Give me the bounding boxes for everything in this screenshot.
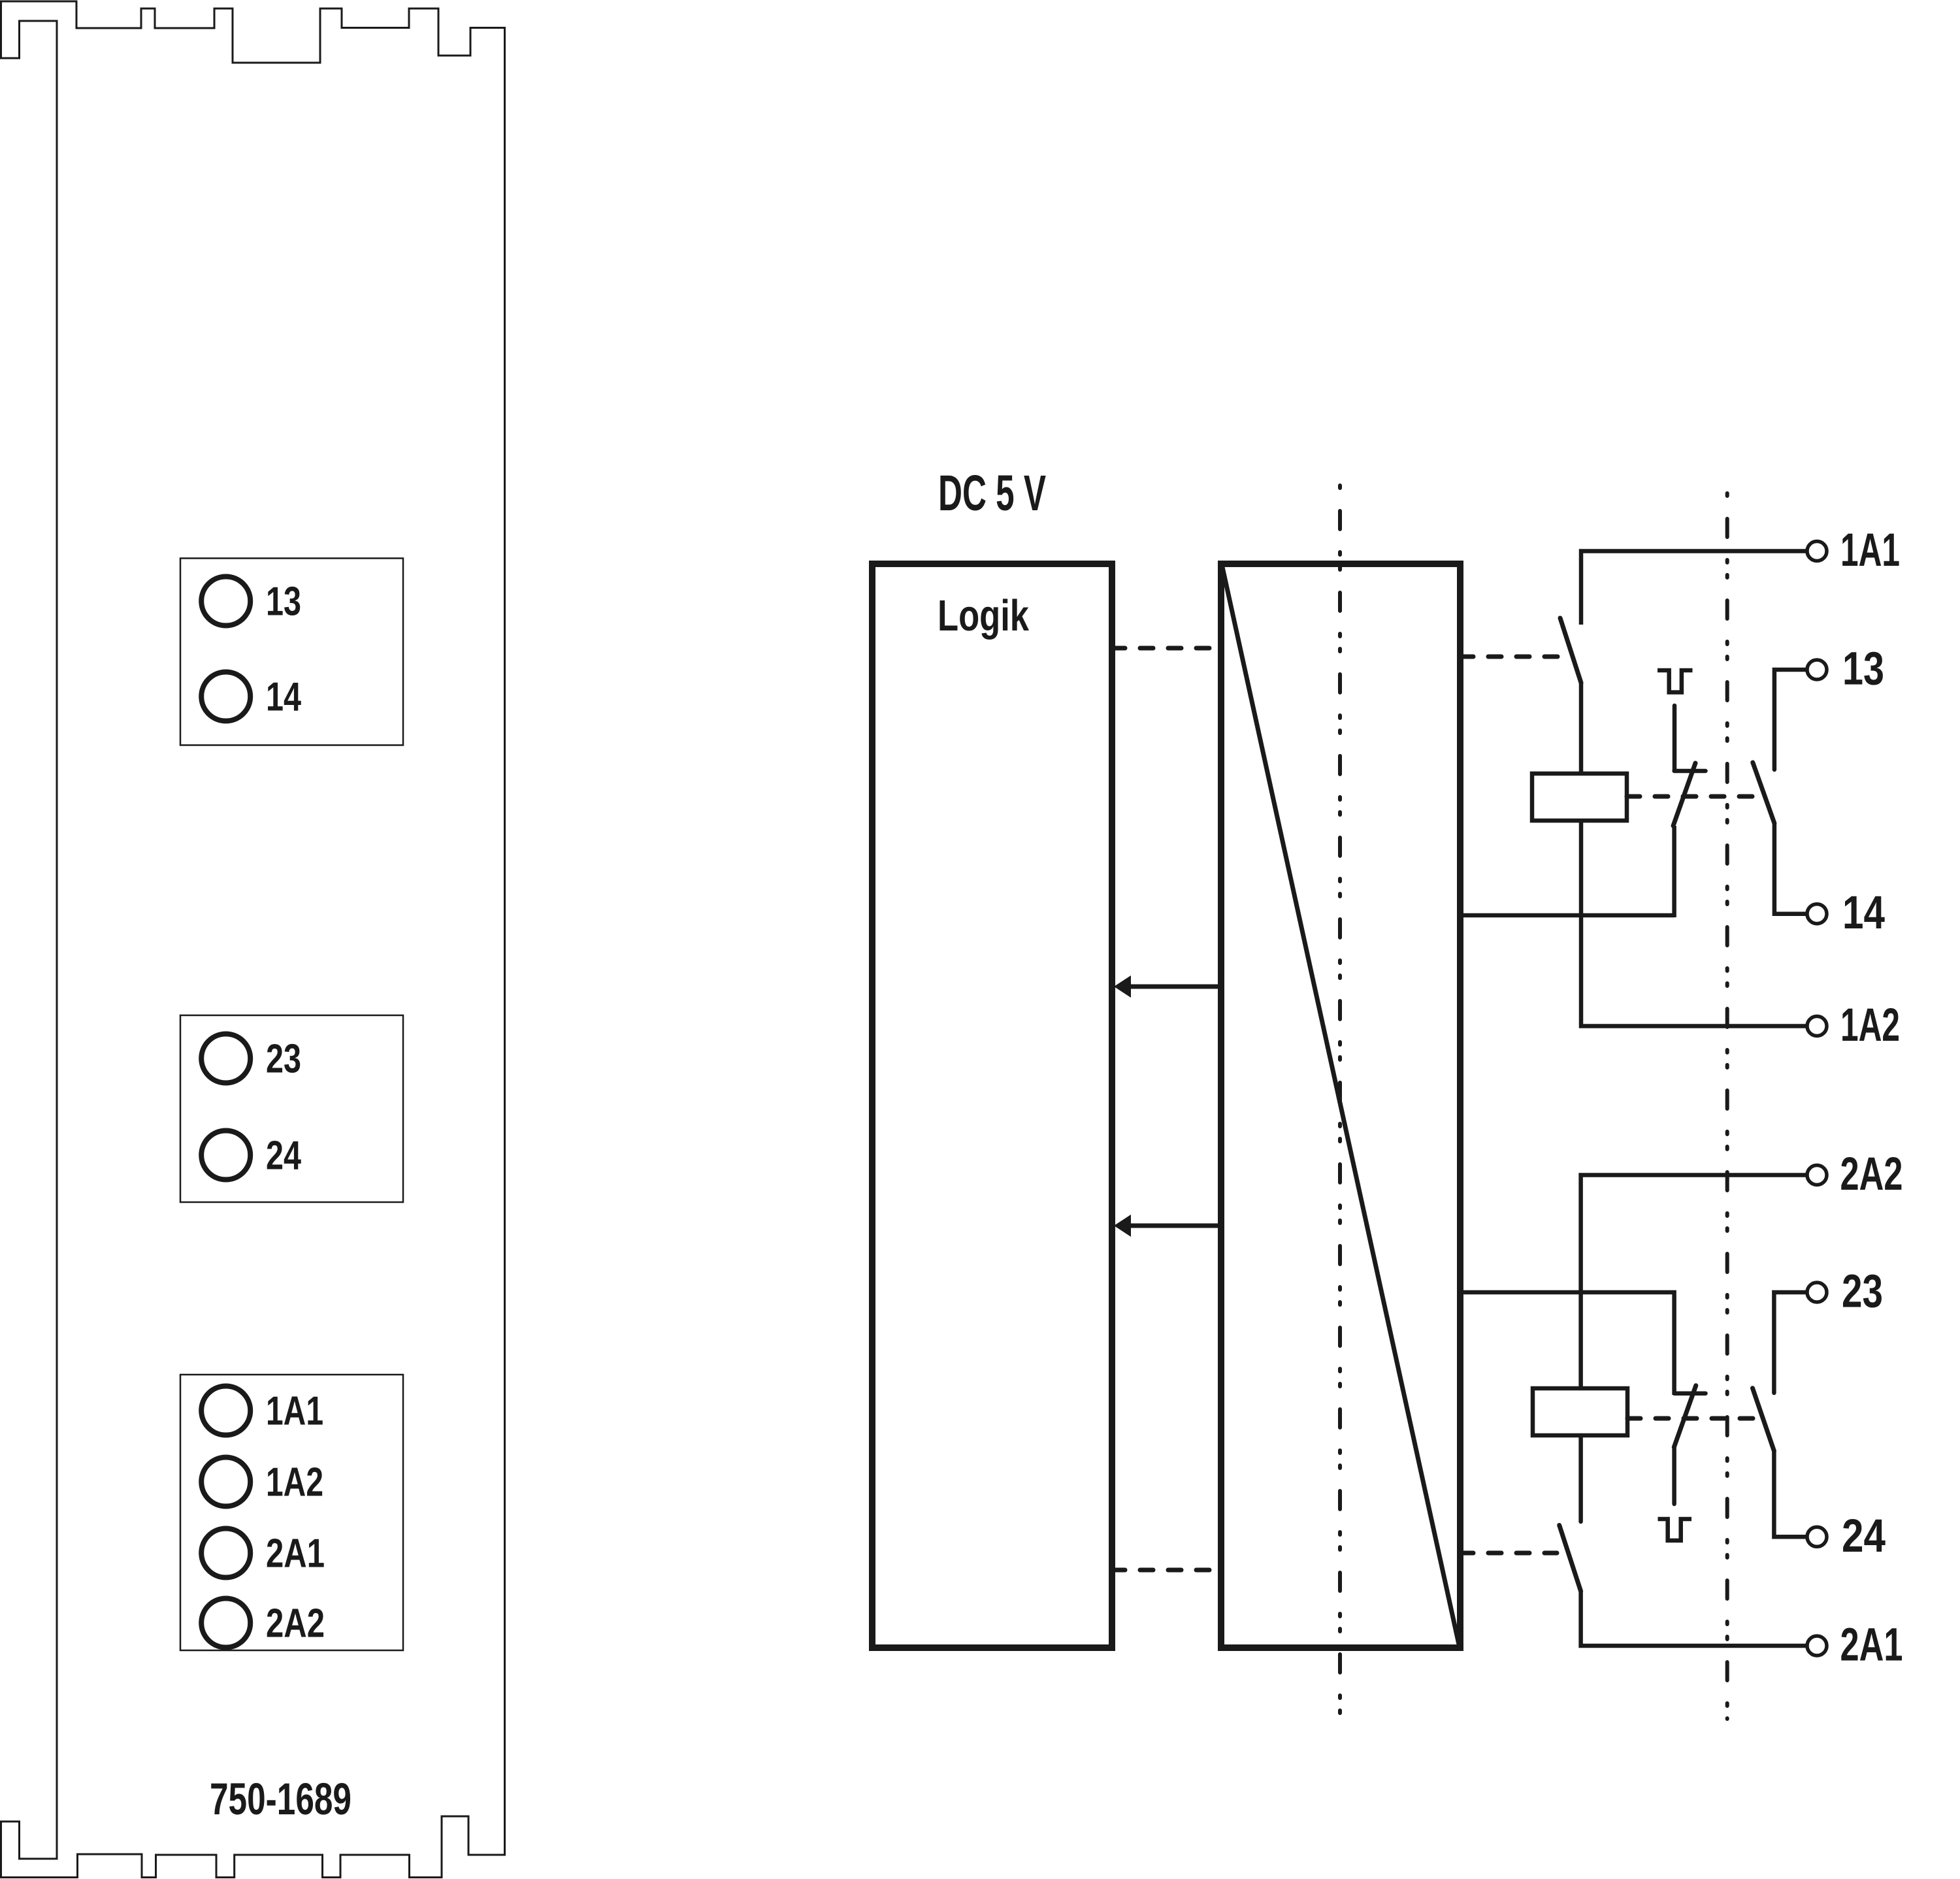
terminal circle 14 (schematic) [1807, 904, 1827, 924]
wire NC2 stub [1672, 1447, 1676, 1504]
terminal circle 2A2 (schematic) [1807, 1166, 1827, 1185]
terminal circle 13 [201, 577, 250, 626]
svg-text:13: 13 [266, 580, 301, 625]
switch blade K1 (supply) [1560, 618, 1581, 683]
wire contact to 24 terminal [1774, 1451, 1806, 1537]
contact 23/24 blade [1753, 1388, 1774, 1451]
terminal circle 2A2 [201, 1599, 250, 1648]
svg-text:23: 23 [266, 1037, 301, 1082]
arrow isolator to Logik (lower) [1129, 1224, 1221, 1228]
svg-text:24: 24 [266, 1134, 301, 1179]
arrowhead upper [1114, 975, 1131, 998]
svg-text:750-1689: 750-1689 [210, 1774, 351, 1824]
svg-text:1A1: 1A1 [1840, 525, 1900, 576]
terminal circle 1A1 [201, 1386, 250, 1435]
svg-text:1A2: 1A2 [266, 1460, 323, 1505]
svg-text:23: 23 [1842, 1266, 1883, 1318]
arrow isolator to Logik (upper) [1129, 985, 1221, 989]
svg-text:2A1: 2A1 [266, 1531, 325, 1577]
terminal circle 23 (schematic) [1807, 1283, 1827, 1302]
svg-text:1A2: 1A2 [1840, 1000, 1900, 1051]
isolation barrier box U2 [1221, 564, 1460, 1648]
isolation diagonal [1222, 567, 1459, 1644]
wire 14 net from isolator [1460, 913, 1674, 918]
svg-text:24: 24 [1842, 1511, 1886, 1562]
terminal circle 24 [201, 1131, 250, 1180]
dash-dot boundary line 1 [1338, 485, 1342, 1713]
dash-dot boundary line 2 [1725, 493, 1729, 1719]
terminal circle 1A2 [201, 1458, 250, 1507]
terminal circle 1A2 (schematic) [1807, 1017, 1827, 1036]
wire contact to 14 terminal [1774, 823, 1806, 914]
terminal circle 23 [201, 1034, 250, 1083]
svg-text:14: 14 [266, 675, 301, 720]
terminal circle 13 (schematic) [1807, 660, 1827, 679]
terminal circle 2A1 [201, 1529, 250, 1578]
relay coil K1 [1532, 774, 1627, 821]
wire switch K2 to 2A1 [1581, 1592, 1806, 1646]
dashed control line to K2 switch [1460, 1551, 1557, 1556]
terminal box 1A1/1A2/2A1/2A2 [180, 1375, 403, 1650]
wire 13 terminal [1774, 670, 1806, 770]
wire switch to coil K1 [1579, 683, 1584, 774]
terminal circle 14 [201, 672, 250, 721]
Logik box U1 [872, 564, 1112, 1648]
dashed link Logik to isolator (bottom) [1112, 1568, 1221, 1573]
manual actuator T2 [1658, 1519, 1692, 1541]
dashed link Logik to isolator (top) [1112, 646, 1221, 651]
switch blade K2 (supply) [1560, 1526, 1581, 1592]
NC contact 1 blade [1673, 763, 1695, 826]
NC contact 1 fixed bar [1674, 769, 1706, 774]
dashed linkage coil K2 to contacts [1627, 1416, 1759, 1421]
wire 23 net from isolator [1460, 1292, 1674, 1395]
svg-text:2A2: 2A2 [1840, 1149, 1903, 1200]
stem T1 [1673, 706, 1677, 770]
module outline 750-1689 [1, 1, 505, 1878]
terminal circle 1A1 (schematic) [1807, 542, 1827, 561]
svg-text:2A1: 2A1 [1840, 1620, 1903, 1671]
terminal circle 24 (schematic) [1807, 1527, 1827, 1546]
svg-text:13: 13 [1842, 644, 1884, 695]
wire 23 terminal [1774, 1292, 1806, 1393]
NC contact 2 fixed bar [1674, 1391, 1706, 1396]
terminal circle 2A1 (schematic) [1807, 1636, 1827, 1656]
terminal box 13/14 [180, 559, 403, 745]
relay coil K2 [1533, 1388, 1627, 1435]
wire coil K1 to 1A2 [1581, 821, 1806, 1026]
arrowhead lower [1114, 1215, 1131, 1237]
svg-text:DC 5 V: DC 5 V [938, 465, 1046, 521]
wire 1A1 terminal [1581, 551, 1806, 625]
NC contact 2 blade [1674, 1386, 1696, 1447]
wire 2A2 terminal [1581, 1175, 1806, 1389]
svg-text:14: 14 [1842, 887, 1885, 939]
manual actuator T1 [1658, 670, 1693, 693]
svg-text:Logik: Logik [938, 591, 1030, 640]
dashed linkage coil K1 to contacts [1627, 794, 1759, 799]
terminal box 23/24 [180, 1015, 403, 1202]
svg-text:1A1: 1A1 [266, 1389, 323, 1434]
wire coil K2 to switch [1578, 1435, 1583, 1522]
dashed control line to K1 switch [1460, 655, 1559, 659]
contact 13/14 blade [1753, 762, 1774, 823]
wire NC1 to 14 net [1672, 826, 1676, 917]
svg-text:2A2: 2A2 [266, 1601, 325, 1646]
